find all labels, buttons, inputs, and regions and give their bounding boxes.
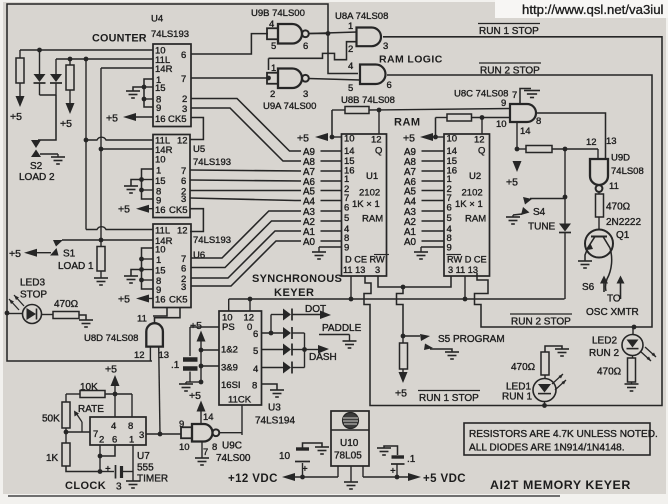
svg-text:U3: U3 (268, 403, 281, 414)
led LED3 arrows (14, 295, 24, 306)
switch S4 moving contact (521, 207, 530, 215)
svg-text:2102: 2102 (462, 188, 483, 199)
resistor below S1 row (100, 240, 102, 247)
ground near cap10 (315, 446, 329, 448)
svg-text:74LS193: 74LS193 (193, 235, 231, 246)
svg-text:470Ω: 470Ω (606, 202, 631, 213)
svg-text:CLOCK: CLOCK (65, 480, 106, 492)
resistor 470 ohm LED2 (628, 358, 636, 382)
diode d4 on pin4 row (283, 362, 291, 374)
U4 bracket pins 1-15-8-9 (144, 79, 153, 107)
svg-text:3: 3 (116, 482, 122, 493)
wire through resistor to U9D pin12 (517, 148, 526, 150)
resistor 10K (66, 393, 80, 395)
svg-text:3: 3 (383, 41, 388, 52)
svg-text:6: 6 (447, 203, 452, 214)
svg-text:OSC XMTR: OSC XMTR (586, 307, 639, 318)
wire branch to U6 pin11 with hop (86, 227, 153, 230)
diode on tune line (559, 224, 571, 232)
ic U6 74LS193 box (153, 224, 191, 308)
svg-text:U10: U10 (340, 438, 359, 449)
svg-text:8: 8 (252, 381, 257, 392)
wire stub to U2 pin12 (481, 118, 483, 135)
node dot ground row (199, 380, 204, 385)
svg-text:U9B 74LS00: U9B 74LS00 (251, 8, 305, 19)
U6 bracket pins 10-1-15-8-9 (142, 248, 154, 289)
svg-text:6: 6 (344, 203, 349, 214)
led LED2 (632, 327, 634, 335)
ground S5 (445, 351, 459, 353)
svg-text:+5: +5 (106, 113, 118, 125)
svg-text:2: 2 (348, 44, 353, 55)
svg-text:50K: 50K (42, 414, 60, 425)
svg-text:15: 15 (155, 83, 166, 94)
svg-text:1K × 1: 1K × 1 (352, 199, 380, 210)
svg-text:0: 0 (247, 322, 252, 333)
wire S4 to ground (513, 214, 522, 215)
ground above LED1 resistor (545, 346, 562, 352)
wire bracket to ground (133, 87, 144, 91)
svg-text:4: 4 (253, 364, 258, 375)
gate U8D 74LS08 and (vertical) (146, 323, 163, 346)
wire long vertical A (pin 11 chain) (85, 59, 87, 230)
wire RW line down to S5 (397, 287, 404, 336)
svg-text:RUN 2 STOP: RUN 2 STOP (480, 66, 540, 77)
svg-text:14: 14 (520, 126, 531, 137)
svg-text:2102: 2102 (359, 188, 380, 199)
svg-text:TUNE: TUNE (528, 222, 556, 233)
node dot S5 junction (401, 334, 406, 339)
U5 bracket pins 1-15-8-9 (142, 169, 154, 199)
ground U9C (195, 457, 209, 459)
svg-text:.1: .1 (407, 454, 416, 465)
wire U3 pin5 row (262, 349, 284, 351)
svg-text:8: 8 (212, 442, 217, 453)
svg-text:U4: U4 (151, 14, 163, 25)
wire DOT line with terminal arrow (293, 314, 323, 316)
svg-text:RUN 2 STOP: RUN 2 STOP (511, 317, 571, 328)
svg-text:LOAD 2: LOAD 2 (19, 172, 55, 183)
svg-text:U8A 74LS08: U8A 74LS08 (335, 11, 388, 22)
svg-text:COUNTER: COUNTER (92, 33, 147, 45)
ground LED3 (79, 319, 93, 321)
svg-text:A0: A0 (404, 237, 417, 248)
svg-text:+5: +5 (105, 364, 117, 376)
svg-text:3: 3 (139, 430, 144, 441)
svg-text:RW D CE: RW D CE (447, 255, 487, 265)
wire riser to DOT row (270, 315, 272, 334)
wire U8D output to U6 clock (155, 308, 181, 324)
node dot U1 D pin tap (349, 297, 354, 302)
capacitor .1 bypass (189, 327, 191, 356)
ground U10 (344, 481, 358, 483)
svg-text:7: 7 (181, 74, 186, 85)
wire Q1 collector curve to S6 (605, 248, 611, 291)
svg-text:TIMER: TIMER (137, 474, 168, 485)
wire +5 output (363, 476, 409, 478)
svg-text:LOAD 1: LOAD 1 (58, 261, 94, 272)
svg-text:CK5: CK5 (169, 205, 187, 216)
wire U5 pin2 to A5 (190, 190, 301, 192)
svg-text:+5: +5 (10, 111, 22, 123)
svg-text:Q: Q (375, 146, 382, 157)
svg-text:3: 3 (303, 89, 308, 100)
node dot pin14 +5 (515, 147, 520, 152)
node dot U2 D pin tap (463, 297, 468, 302)
wire bracket to ground (131, 180, 142, 187)
wire DASH with terminal arrow (305, 349, 320, 351)
wire U9A out to U8B pin5 (309, 79, 360, 81)
node dot resistor R2 top (68, 57, 73, 62)
ground U5 bracket (124, 185, 138, 187)
wire 1&2 row (201, 349, 219, 351)
power +5 above (111, 375, 120, 386)
svg-text:2: 2 (99, 435, 104, 446)
svg-text:15: 15 (155, 265, 166, 276)
svg-text:DASH: DASH (309, 352, 337, 363)
svg-text:RATE: RATE (78, 404, 104, 415)
svg-text:470Ω: 470Ω (597, 367, 622, 378)
switch S5 moving contact (424, 344, 433, 351)
wire U8D pin13 input from 555 output (159, 347, 160, 434)
svg-text:U9C: U9C (222, 441, 242, 452)
wire RUN 2 STOP loop (387, 75, 652, 327)
svg-text:16: 16 (155, 294, 166, 305)
svg-text:11CK: 11CK (228, 395, 252, 406)
svg-text:14: 14 (203, 412, 214, 423)
svg-text:S2: S2 (30, 161, 43, 172)
wire cap bottom to ground row (189, 372, 191, 383)
wire LED2 to resistor (632, 356, 634, 359)
ic U7 555 timer box (90, 417, 146, 445)
wire d2 to dash bus (293, 332, 305, 334)
svg-text:AI2T MEMORY KEYER: AI2T MEMORY KEYER (490, 478, 631, 492)
svg-text:11 13: 11 13 (343, 265, 365, 275)
ic U4 74LS193 box (153, 44, 191, 127)
wire U6 pin2 diagonal to A1 (191, 231, 301, 278)
resistor 470 ohm base (596, 194, 604, 217)
svg-text:RAM: RAM (394, 117, 421, 129)
wire U2 Q feedback through resistor to U8C pin10 (435, 118, 437, 138)
wire cap plus down to +12 wire (302, 463, 304, 477)
svg-text:+5: +5 (403, 133, 415, 145)
svg-text:U7: U7 (137, 451, 150, 462)
wire U8D pin12 input from long wire (149, 347, 151, 361)
ground LED2 (625, 383, 639, 385)
node dots on bracket (142, 85, 147, 90)
svg-text:3&9: 3&9 (221, 363, 238, 374)
svg-text:11: 11 (137, 314, 147, 325)
wire pot to pin7 (81, 422, 83, 432)
wire U6 pin3 diagonal to A0 (191, 241, 301, 286)
wire U4 pin10 row (20, 49, 153, 51)
svg-text:Q1: Q1 (616, 230, 630, 241)
svg-text:12: 12 (474, 135, 485, 146)
wire 50K bottom to 1K (65, 428, 67, 443)
wire S2 to ground (40, 153, 58, 155)
svg-text:12: 12 (177, 136, 188, 147)
svg-text:13: 13 (606, 136, 617, 147)
wire U8C out to U9D pin13 (536, 113, 606, 159)
svg-text:U9D: U9D (611, 153, 630, 164)
ground below cap (185, 382, 187, 384)
ground U2 pin9 (421, 246, 444, 248)
svg-text:+5: +5 (506, 177, 518, 189)
wire U9A input to U8A pin2 (with hop) (268, 58, 270, 70)
wire U1 pin11 D stub (350, 276, 352, 299)
node dot Q2 line to pin12 (480, 115, 485, 120)
U10 can top view (343, 413, 359, 429)
svg-text:+12 VDC: +12 VDC (228, 473, 278, 485)
svg-text:S1: S1 (63, 249, 76, 260)
svg-text:http://www.qsl.net/va3iul: http://www.qsl.net/va3iul (522, 2, 664, 17)
wire cap to ground (303, 443, 323, 448)
switch S2 fixed contact (31, 140, 41, 148)
led LED2 arrows (640, 351, 651, 361)
wire resistor to ground (79, 315, 86, 320)
node dot on pin10 row (37, 48, 42, 53)
switch S6 contact OSC (603, 280, 605, 292)
resistor 470 LED3 (53, 312, 79, 319)
wire U6 pin6 diagonal to A2 (191, 221, 301, 268)
power arrow +12 (282, 473, 295, 481)
node dot 10K right (113, 392, 118, 397)
svg-text:74LS193: 74LS193 (151, 29, 189, 40)
svg-text:RUN 1 STOP: RUN 1 STOP (419, 393, 479, 404)
svg-text:16SI: 16SI (221, 380, 241, 391)
node dot pin2 row (98, 454, 103, 459)
power arrow +5 VDC (408, 473, 421, 481)
svg-text:KEYER: KEYER (274, 287, 314, 299)
node dot at U5 pin11 branch (84, 138, 89, 143)
wire U1 pin3 to U2 pin3 (R/W line) (378, 276, 451, 287)
svg-text:+5: +5 (60, 118, 72, 130)
resistor on CE/tune line (526, 146, 552, 153)
wire 10K left to 50K (65, 394, 67, 402)
U3 riser pin10 (228, 299, 230, 311)
wire Q1 emitter to ground (585, 250, 587, 261)
svg-text:12: 12 (177, 226, 188, 237)
svg-text:A0: A0 (303, 237, 316, 248)
svg-text:10: 10 (447, 134, 458, 145)
svg-text:PADDLE: PADDLE (322, 323, 362, 334)
svg-text:RUN 1: RUN 1 (502, 392, 532, 403)
svg-text:S5 PROGRAM: S5 PROGRAM (438, 334, 505, 345)
ic U10 78L05 box (331, 411, 369, 466)
svg-text:Q: Q (478, 146, 485, 157)
svg-text:7: 7 (203, 447, 208, 458)
node dot U9A input (266, 76, 271, 81)
wire 555 pin2 down (99, 445, 101, 472)
svg-text:1K: 1K (46, 453, 59, 464)
wire U5 pin12 to U4 (carry chain) done above; U5 CK5 to U6 pin12 (190, 209, 203, 232)
bottom page edge line (8, 495, 560, 497)
svg-text:RAM: RAM (362, 214, 383, 225)
node dot S4 tap (563, 195, 568, 200)
wire U4 pin14 row (101, 67, 153, 69)
svg-text:+5 VDC: +5 VDC (423, 473, 466, 485)
wire +5 vertical with taps (200, 342, 202, 383)
notes box (464, 423, 650, 455)
svg-text:10: 10 (155, 154, 166, 165)
U10 ground pin (350, 466, 352, 482)
wire down to S4 and diode (564, 149, 566, 226)
svg-text:6: 6 (181, 176, 186, 187)
U3 riser pin12 (249, 299, 251, 311)
svg-text:555: 555 (137, 463, 154, 474)
node dot 555 output (158, 432, 163, 437)
capacitor .1 output (396, 465, 398, 478)
wire U5 pin6 to A6 (190, 180, 301, 181)
svg-text:6: 6 (253, 329, 258, 340)
power +5 arrow (513, 161, 522, 172)
wire U4 pin11 row (56, 58, 153, 60)
node dot LED1 on RUN1 wire (544, 402, 546, 406)
wire long vertical B (pin 14 chain) (100, 68, 102, 240)
svg-text:9: 9 (447, 242, 452, 253)
svg-text:U2: U2 (469, 171, 481, 182)
svg-text:6: 6 (181, 50, 186, 61)
svg-text:5: 5 (271, 41, 276, 52)
wire +12 to U10 (295, 476, 338, 478)
diode D1 (39, 50, 41, 74)
svg-text:12: 12 (371, 135, 382, 146)
svg-text:+5: +5 (297, 133, 309, 145)
wire diode bottoms (40, 94, 57, 96)
wire stub to U1 pin12 (378, 110, 380, 134)
svg-text:10K: 10K (80, 382, 98, 393)
U3 pin8 to ground (262, 384, 278, 390)
svg-text:U1: U1 (366, 171, 378, 182)
svg-text:2: 2 (270, 89, 275, 100)
svg-text:6: 6 (181, 264, 186, 275)
svg-text:12: 12 (134, 350, 145, 361)
ground 555 (126, 480, 140, 482)
node dot S4 branch (563, 147, 568, 152)
node junction U9B output (326, 31, 331, 36)
wire U6 pin7 diagonal to A3 (191, 211, 301, 258)
svg-text:1: 1 (129, 435, 134, 446)
resistor 1K (62, 443, 70, 466)
svg-text:PS: PS (222, 322, 235, 333)
wire main keyer bus y=299 (229, 298, 565, 300)
svg-text:6: 6 (303, 41, 308, 52)
node dot U1 pin10 +5 (330, 135, 335, 140)
wire U9B bubble out (309, 33, 328, 35)
led LED3 (7, 313, 23, 315)
svg-text:D CE RW: D CE RW (345, 255, 385, 265)
svg-text:4: 4 (111, 421, 116, 432)
wire 555 output (146, 433, 181, 435)
wire to S2 (38, 95, 56, 140)
svg-text:U5: U5 (193, 144, 205, 155)
diode DOT d1 (283, 309, 291, 321)
svg-text:10: 10 (344, 134, 355, 145)
wire resistor to Q1 base (598, 217, 600, 230)
wire S5 to ground (430, 349, 452, 352)
svg-text:RUN 2: RUN 2 (589, 348, 619, 359)
node dot LED2 tap on RUN2 wire (632, 325, 637, 330)
svg-text:A4: A4 (404, 197, 417, 208)
svg-text:S6: S6 (582, 282, 595, 293)
svg-text:12: 12 (586, 137, 597, 148)
node dot pin2 bottom (98, 469, 103, 474)
node dot at U5 pin14 branch (99, 147, 104, 152)
switch S4 fixed contact (523, 197, 532, 205)
ground cap .1 (377, 447, 391, 449)
svg-text:74LS194: 74LS194 (255, 416, 295, 427)
svg-text:ALL DIODES ARE 1N914/1N4148.: ALL DIODES ARE 1N914/1N4148. (469, 443, 625, 454)
ground below resistor (94, 277, 108, 279)
wire bracket to ground (131, 270, 142, 277)
svg-text:U6: U6 (193, 250, 205, 261)
switch S1 fixed contact (53, 240, 63, 247)
wire pin6 jog (100, 445, 115, 456)
wire RUN 1 STOP loop right side (364, 37, 662, 406)
ground U6 bracket (124, 275, 138, 277)
ground at S2 (51, 156, 65, 158)
wire left border loop (U8D output to top) (7, 4, 328, 361)
svg-text:11: 11 (609, 181, 619, 192)
wire U3 pin6 row (262, 332, 284, 334)
wire U4 pin3 diagonal to A8 (191, 108, 301, 161)
svg-text:10: 10 (279, 451, 291, 462)
svg-text:+5: +5 (118, 294, 130, 306)
wire 1K bottom (66, 466, 100, 472)
node dot below pot (64, 430, 69, 435)
svg-text:+5: +5 (395, 388, 407, 400)
svg-text:8: 8 (536, 116, 541, 127)
svg-text:5: 5 (344, 213, 349, 224)
wire S1 row to U6 pin14 (62, 239, 153, 241)
U8C pin14 +5 stub (516, 122, 518, 149)
svg-text:U8B 74LS08: U8B 74LS08 (341, 95, 395, 106)
wire 3&9 row (201, 365, 219, 367)
svg-text:7: 7 (512, 90, 517, 101)
ic U2 2102 RAM box (444, 134, 490, 276)
wire U1 Q feedback through resistor to U8C pin9 (331, 110, 333, 137)
svg-text:A4: A4 (303, 197, 316, 208)
wire U9B out to U8B pin4 (328, 34, 358, 74)
ic U5 74LS193 box (153, 135, 190, 218)
svg-text:+5: +5 (190, 320, 202, 332)
wire 10K to 555 pins 4 8 (114, 394, 116, 417)
svg-text:9: 9 (501, 98, 506, 109)
wire U4 pin7 to U9A input (191, 77, 268, 79)
node dot cap .1 tap (395, 475, 400, 480)
svg-text:STOP: STOP (20, 290, 47, 301)
svg-text:16: 16 (155, 114, 166, 125)
resistor 50K pot (62, 402, 70, 428)
svg-text:74LS00: 74LS00 (216, 453, 251, 464)
svg-text:+5: +5 (9, 248, 21, 260)
node dot dash bus (302, 347, 307, 352)
pot wiper arrow (76, 413, 82, 422)
svg-text:15: 15 (155, 176, 166, 187)
svg-text:+: + (105, 464, 111, 475)
node dot RW line (401, 285, 406, 290)
node dot S1 row / resistor (99, 238, 104, 243)
wire U4 pin2 diagonal to A9 (191, 99, 301, 152)
diode d2 on pin6 row (283, 327, 291, 339)
svg-text:9: 9 (344, 242, 349, 253)
svg-text:3: 3 (181, 194, 186, 205)
wire U3 pin4 row (262, 367, 284, 369)
ic U1 2102 RAM box (342, 134, 387, 276)
wire U9C out to U3 clock (219, 432, 242, 434)
svg-text:LED3: LED3 (20, 278, 45, 289)
svg-text:+5: +5 (189, 390, 201, 402)
